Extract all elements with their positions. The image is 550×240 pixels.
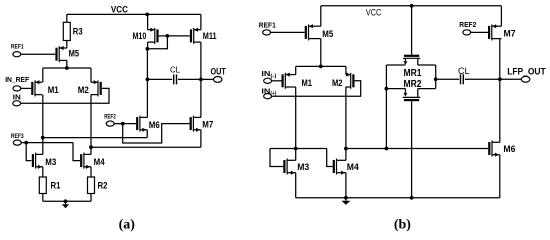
wire M4 node to M7 source	[91, 146, 201, 148]
svg-text:IN: IN	[13, 95, 21, 102]
wire M5 source up to VCC (b)	[320, 6, 322, 26]
resistor R1	[39, 177, 46, 201]
junction LFP_OUT node	[498, 77, 502, 81]
wire M10 drain down	[147, 42, 149, 49]
junction MR right node / CL line	[434, 77, 438, 81]
wire MR2 gate to ground rail	[411, 101, 413, 198]
wire M4 gate loop (b)	[327, 149, 333, 167]
svg-text:REF2: REF2	[104, 115, 116, 121]
svg-text:M2: M2	[78, 85, 89, 96]
port REF1 (b)	[263, 30, 271, 35]
svg-text:VCC: VCC	[366, 7, 382, 17]
junction M4 source / ground	[344, 196, 348, 200]
wire M4 drain up (b)	[345, 149, 347, 161]
junction M10/M11 gate node	[166, 34, 170, 38]
transistor M7 (b) PMOS	[488, 24, 501, 40]
port IN_REF	[13, 86, 21, 91]
transistor M3 (a) NMOS	[32, 153, 43, 169]
svg-text:M1: M1	[302, 78, 313, 89]
port IN	[13, 101, 21, 106]
junction M2 drain / M4 drain node	[89, 145, 93, 149]
wire bottom rail (a)	[43, 200, 91, 202]
transistor M1 (a) PMOS	[31, 80, 42, 96]
svg-text:LFP_OUT: LFP_OUT	[507, 66, 546, 77]
svg-text:M7: M7	[202, 120, 213, 131]
net VCC rail (b)	[321, 5, 502, 7]
junction M10 drain	[146, 47, 150, 51]
wire M2 drain down to M4 node	[90, 95, 92, 148]
port IN(-)	[264, 78, 272, 83]
wire M10 diode feedback	[147, 36, 167, 49]
wire M1 drain down to M3 node	[42, 95, 44, 138]
svg-text:M4: M4	[94, 157, 106, 168]
junction REF2 node	[121, 122, 125, 126]
svg-text:M5: M5	[69, 49, 80, 60]
junction CL left (a)	[146, 78, 150, 82]
wire MR left node down to bus	[385, 65, 387, 149]
junction VCC rail / M10 source (a)	[145, 13, 149, 17]
svg-text:M3: M3	[297, 162, 309, 173]
port REF1 (a)	[13, 52, 21, 57]
wire M10 gate to node	[159, 35, 168, 37]
transistor M4 (b) NMOS	[333, 159, 346, 175]
svg-text:(a): (a)	[119, 218, 136, 233]
transistor M2 (b) PMOS mirrored	[346, 73, 355, 89]
capacitor CL (a)	[174, 74, 177, 84]
wire M11 drain down to OUT node	[200, 42, 202, 117]
junction REF3 / M3 gate	[24, 141, 28, 145]
wire REF1 to M5 gate (a)	[21, 53, 56, 55]
resistor R2	[88, 177, 95, 201]
wire MR1 gate to VCC	[411, 6, 413, 55]
svg-text:IN: IN	[261, 69, 270, 78]
wire CL line left (b)	[436, 78, 460, 80]
transistor MR1 pseudo-resistor PMOS rotated	[386, 55, 435, 65]
wire M4 drain up	[90, 147, 92, 154]
wire M7 drain down to LFP node	[499, 39, 501, 143]
port REF2 (a)	[106, 121, 114, 126]
svg-text:OUT: OUT	[211, 66, 226, 77]
wire ground rail (b)	[296, 197, 500, 199]
wire M7 source up to VCC (b)	[500, 6, 502, 26]
wire MR right node vertical	[435, 65, 437, 89]
svg-text:M6: M6	[503, 144, 515, 155]
svg-text:VCC: VCC	[111, 5, 128, 15]
wire M1 drain down (b)	[295, 87, 297, 149]
junction OUT node (a)	[199, 78, 203, 82]
wire M3 gate loop	[26, 143, 31, 161]
junction M1 drain / M3 drain node	[41, 136, 45, 140]
svg-text:R1: R1	[51, 181, 62, 192]
svg-text:M4: M4	[347, 162, 360, 173]
transistor M6 (b) NMOS output	[488, 141, 500, 157]
junction MR2 left lead	[385, 87, 389, 91]
wire mirror gate bus (b)	[270, 148, 327, 150]
ground symbol (b)	[341, 198, 350, 205]
svg-text:M2: M2	[332, 78, 343, 89]
wire M2 source up (b)	[345, 66, 347, 74]
wire REF3 to M3/M4 gates	[21, 142, 73, 144]
wire IN_REF to M1 gate	[21, 87, 31, 89]
wire IN to M2 gate	[21, 88, 109, 103]
svg-text:REF3: REF3	[11, 134, 24, 140]
wire M10 source up to VCC	[147, 14, 149, 29]
wire REF2 to M6 gate	[114, 123, 136, 125]
svg-text:M1: M1	[48, 85, 60, 96]
svg-text:REF2: REF2	[459, 22, 476, 29]
junction VCC / MR1 gate	[410, 4, 414, 8]
wire M4 gate loop	[73, 143, 80, 161]
svg-text:M11: M11	[203, 31, 217, 41]
port OUT	[214, 77, 222, 83]
wire M1 source up (a)	[42, 68, 44, 82]
transistor M5 (a) PMOS	[55, 46, 66, 62]
wire REF2 to M7 gate	[123, 124, 190, 143]
transistor M7 (a) NMOS cascode	[190, 116, 201, 132]
transistor M6 (a) NMOS cascode	[136, 116, 147, 132]
svg-text:MR1: MR1	[404, 68, 422, 79]
junction MR2 gate / ground rail	[410, 196, 414, 200]
svg-text:M10: M10	[133, 31, 147, 41]
svg-text:M6: M6	[149, 120, 160, 131]
port REF3	[13, 140, 21, 145]
junction MR left node / output bus	[385, 147, 389, 151]
wire REF2 to M7 gate (b)	[471, 31, 488, 33]
svg-text:CL: CL	[458, 66, 470, 76]
svg-text:M7: M7	[504, 29, 516, 40]
transistor M4 (a) NMOS	[80, 153, 91, 169]
transistor MR2 pseudo-resistor PMOS rotated mirrored	[386, 89, 435, 102]
junction M2/M4 drain output node	[344, 147, 348, 151]
ground symbol (a)	[62, 201, 69, 208]
junction ground (a)	[64, 199, 68, 203]
wire M1 source up (b)	[295, 66, 297, 74]
transistor M3 (b) NMOS diode-connected	[283, 159, 295, 175]
transistor M5 (b) PMOS	[305, 24, 321, 40]
junction tail node (a)	[65, 66, 69, 70]
wire gate node to M11 gate	[167, 35, 190, 37]
svg-text:(b): (b)	[394, 218, 411, 233]
wire M3 node to M6 source	[43, 137, 147, 139]
wire M2 drain down (b)	[345, 87, 347, 149]
wire CL line right (a)	[178, 78, 201, 80]
wire M3 drain up (b)	[295, 149, 297, 161]
wire M11 source up to VCC	[200, 14, 202, 29]
transistor M1 (b) PMOS	[282, 73, 296, 89]
wire M3 source down (b)	[295, 173, 297, 198]
transistor M11 PMOS	[190, 28, 201, 44]
svg-text:CL: CL	[170, 65, 180, 75]
wire M3 gate loop (b)	[270, 149, 283, 167]
port IN(+)	[264, 94, 272, 99]
net VCC rail (a)	[67, 13, 201, 15]
junction tail node (b)	[319, 65, 323, 69]
wire M7 source down to M4 node wire	[200, 130, 202, 147]
wire M5 drain down to tail (b)	[320, 39, 322, 67]
svg-text:REF1: REF1	[11, 44, 24, 50]
circuit (a) two-stage amplifier	[5, 5, 226, 233]
wire REF1 to M5 gate (b)	[271, 31, 305, 33]
svg-text:M3: M3	[45, 157, 56, 168]
wire M6 source down to M3 node wire	[146, 130, 148, 138]
transistor M2 (a) PMOS mirrored	[91, 80, 102, 96]
wire IN(+) to M2 gate (b)	[272, 81, 361, 96]
wire CL line left (a)	[147, 78, 172, 80]
wire M6 source down (b)	[499, 155, 501, 198]
wire M4 source down (b)	[345, 173, 347, 198]
capacitor CL (b)	[461, 74, 464, 84]
wire CL line right (b)	[465, 78, 500, 80]
wire M3 drain up	[42, 138, 44, 155]
wire to LFP_OUT port	[500, 78, 522, 80]
port LFP_OUT	[521, 76, 530, 82]
svg-text:IN_REF: IN_REF	[5, 77, 30, 84]
wire M3 source to R1	[42, 167, 44, 177]
wire tail rail (b)	[296, 65, 346, 67]
junction M1 drain / mirror gate bus	[294, 147, 298, 151]
wire IN(-) to M1 gate (b)	[272, 80, 282, 82]
transistor M10 PMOS mirrored diode-connected	[148, 28, 159, 44]
resistor R3	[63, 14, 70, 48]
circuit (b) LFP amplifier	[259, 4, 546, 233]
svg-text:R3: R3	[73, 27, 83, 38]
wire tail rail (a)	[43, 67, 91, 69]
wire M5 drain to tail node (a)	[66, 60, 68, 68]
svg-text:R2: R2	[98, 181, 108, 192]
svg-text:M5: M5	[322, 29, 334, 40]
port REF2 (b)	[463, 30, 471, 35]
svg-text:IN: IN	[261, 87, 270, 96]
wire first-stage output to M6 gate (b)	[346, 148, 488, 150]
wire M4 source to R2	[90, 167, 92, 177]
wire to OUT port	[201, 78, 214, 80]
svg-text:REF1: REF1	[259, 22, 276, 29]
wire M2 source up (a)	[90, 68, 92, 82]
svg-text:MR2: MR2	[404, 79, 422, 90]
svg-text:(-): (-)	[270, 74, 276, 80]
wire M10 drain to M6 drain	[146, 49, 148, 118]
